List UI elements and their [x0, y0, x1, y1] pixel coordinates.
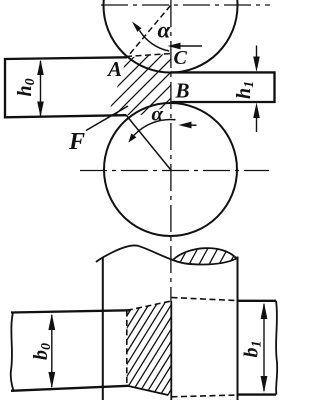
dashed radius to A (top roll) — [127, 6, 171, 58]
h0 label — [14, 78, 38, 96]
entry strip (plan view) bottom edge — [11, 386, 129, 391]
svg-text:α: α — [158, 18, 172, 43]
plan hatch zone top dashed edge — [127, 301, 172, 310]
alpha label (top) — [158, 18, 172, 43]
bottom roll circle — [104, 103, 237, 236]
entry strip outline (side view) — [5, 57, 127, 117]
lens hatching — [166, 240, 242, 270]
exit strip (plan) top edge solid — [238, 300, 277, 302]
alpha label (bottom) — [152, 102, 164, 126]
label A — [106, 57, 122, 81]
label F — [68, 129, 85, 155]
bottom rotation arrow — [179, 122, 197, 129]
plan view: roll barrel left edge — [102, 258, 104, 400]
exit strip (plan) wavy right end — [276, 301, 277, 395]
svg-text:C: C — [174, 47, 188, 69]
b0 dimension arrow — [48, 314, 55, 389]
svg-text:A: A — [106, 57, 122, 81]
plan view: roll barrel right edge — [237, 257, 239, 400]
svg-text:α: α — [152, 102, 164, 126]
top roll horizontal centerline — [101, 4, 270, 6]
plan hatch zone bottom edge — [127, 386, 168, 395]
h1 dimension arrows — [253, 46, 260, 133]
top rotation arrow — [168, 43, 203, 50]
svg-text:B: B — [175, 79, 190, 103]
h1 label — [233, 81, 257, 99]
exit strip (plan) bottom edge solid — [238, 393, 277, 395]
plan hatch zone left dashed edge — [126, 310, 128, 385]
exit strip (plan) top edge dashed — [172, 298, 238, 301]
label B — [175, 79, 190, 103]
vertical centerline — [170, 0, 172, 302]
svg-text:F: F — [68, 129, 85, 155]
plan hatch deformation zone — [66, 295, 245, 400]
b1 dimension arrow — [261, 303, 268, 393]
entry strip (plan view) top edge — [11, 310, 129, 312]
b1 label — [241, 341, 265, 358]
exit strip outline (side view) — [171, 72, 275, 102]
bottom alpha angle arc with arrowhead — [128, 119, 175, 142]
entry strip (plan view) wavy left end — [11, 313, 14, 391]
exit strip (plan) bottom edge dashed — [172, 395, 238, 397]
h0 dimension arrow — [37, 60, 44, 118]
top roll circle — [104, 0, 238, 73]
F leader line — [86, 106, 128, 131]
bottom roll radius line to contact point — [126, 115, 170, 169]
plan view: break lens outline — [173, 248, 237, 264]
dashed chord A-C — [126, 54, 172, 57]
plan view: barrel break wavy edge — [96, 245, 173, 262]
plan centerline solid (exit plane) — [170, 301, 172, 400]
label C — [174, 47, 188, 69]
top alpha angle arc with arrowhead — [132, 22, 169, 52]
side hatch deformation zone — [71, 48, 221, 120]
b0 label — [30, 343, 54, 360]
bottom roll horizontal centerline — [80, 170, 269, 172]
